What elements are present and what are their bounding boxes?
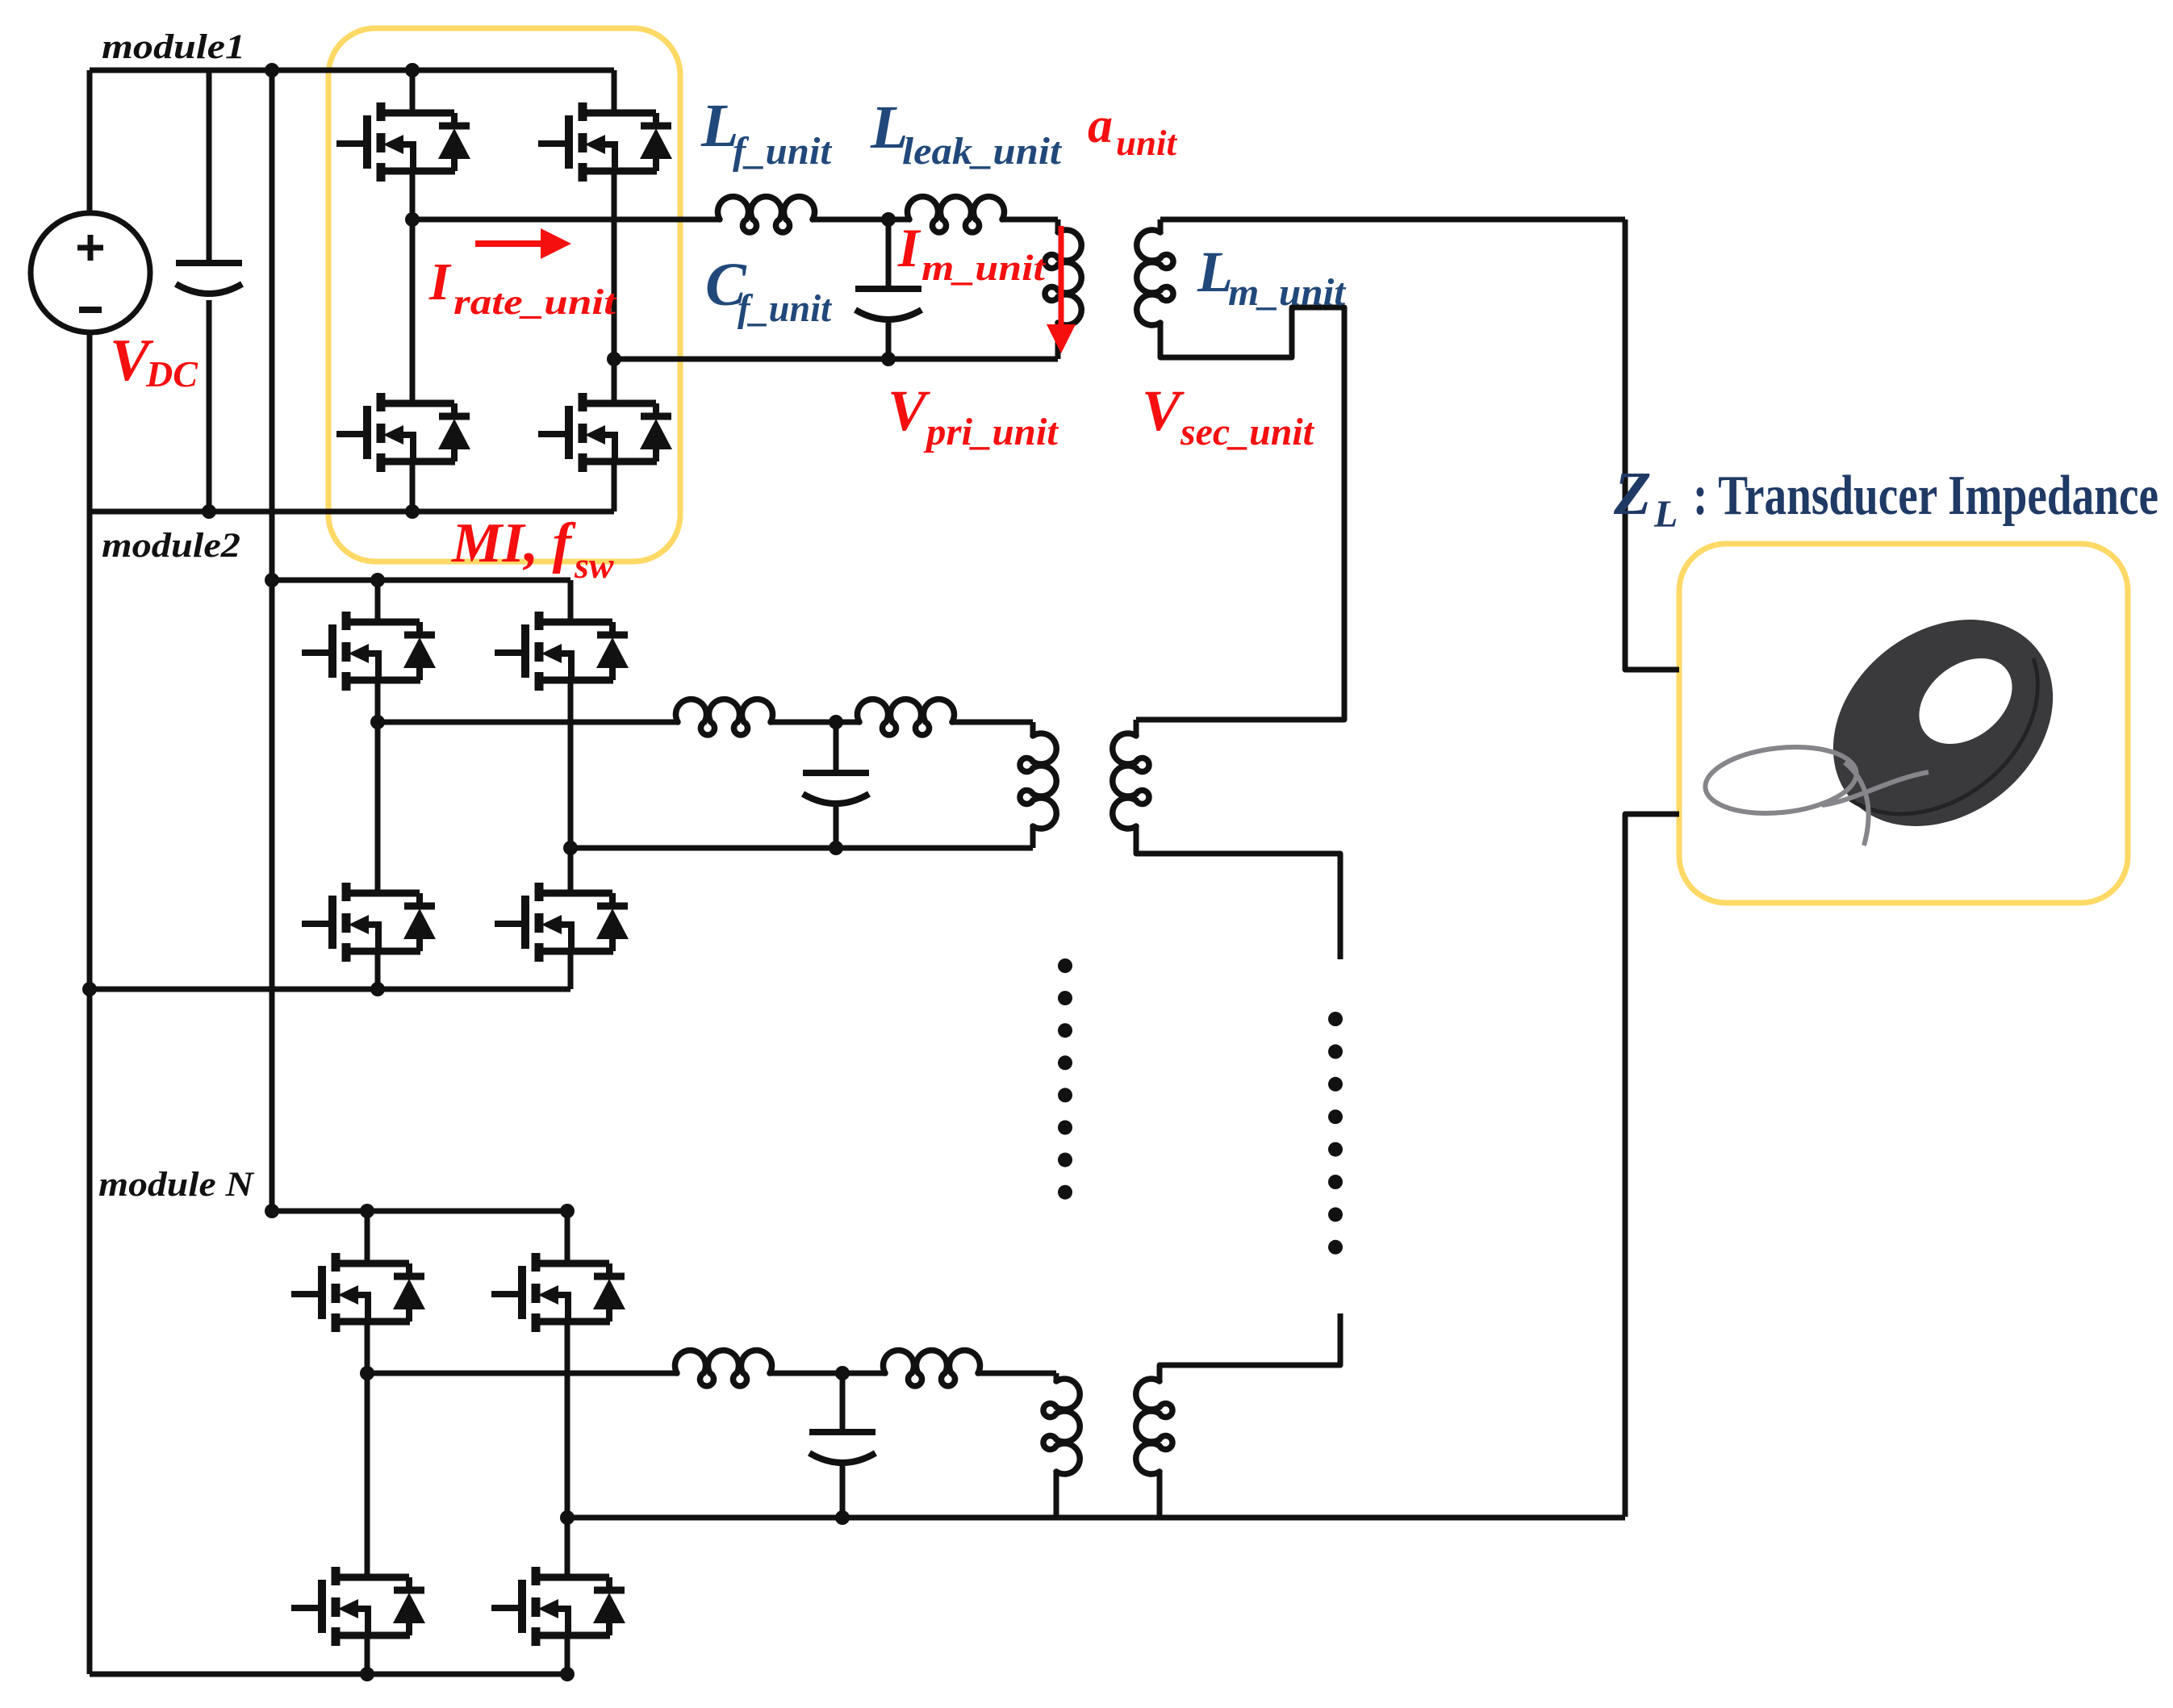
wire transformer1 primary top [1055,219,1061,232]
wire transformer2 secondary top [1134,720,1139,736]
svg-text:module1: module1 [102,28,245,66]
node module N left leg bottom [360,1667,374,1681]
transistor Q12 (module N lower-right MOSFET) [491,1567,625,1646]
transistor Q2 (module1 upper-right MOSFET) [538,102,672,182]
capacitor input C leads [207,70,212,263]
svg-text:I: I [428,253,452,311]
transistor Q4 (module1 lower-right MOSFET) [538,393,672,472]
capacitor C_f module2 [803,773,869,804]
wire module N top rail [272,1209,567,1214]
wire transformer N primary bottom [1054,1472,1059,1518]
transistor Q11 (module N lower-left MOSFET) [291,1567,425,1646]
transformer T2 primary winding [1020,733,1056,829]
wire module N right leg lower [565,1635,570,1674]
ellipsis dots secondary chain [1328,1012,1343,1026]
wire module N bottom rail [90,1672,567,1677]
wire module2 right leg upper [568,580,574,622]
transformer TN primary winding [1043,1379,1080,1474]
wire secondary bus bottom [1625,814,1679,1517]
wire module2 left leg lower [375,951,381,989]
node C_f module2 top [829,715,843,729]
transistor Q7 (module2 lower-left MOSFET) [302,883,436,962]
node module N right-leg output [560,1510,575,1525]
ellipsis dots primary chain [1058,958,1072,973]
transistor Q5 (module2 upper-left MOSFET) [302,612,436,691]
highlight box around module1 H-bridge (MI, f_sw) [328,28,680,562]
capacitor C_f module N leads [840,1373,846,1432]
wire module N filter mid [770,1371,885,1376]
label I_m_unit arrow [1047,226,1076,353]
node module N left-leg output [360,1366,374,1380]
wire module1 left leg upper [410,70,416,113]
wire transformer2 secondary bottom [1136,826,1340,959]
transducer wire loop [1702,740,1929,846]
wire module N L_leak to transformer [978,1371,1056,1376]
wire positive bus [270,70,275,1211]
inductor L_leak module N [884,1351,980,1386]
inductor L_f module N [675,1351,772,1386]
wire transformer N secondary top link [1160,1313,1340,1381]
svg-text:a: a [1088,98,1113,153]
node module N right leg top [560,1204,575,1218]
inductor L_f module2 [676,699,773,735]
wire module N output A [367,1371,677,1376]
wire transformer1 secondary top [1158,219,1164,232]
wire module2 right leg lower [568,951,574,989]
wire module1 right leg lower [612,461,617,512]
svg-text:m_unit: m_unit [921,247,1046,288]
node module2 left leg bottom [370,982,385,996]
svg-text:f_unit: f_unit [733,130,833,173]
svg-text:V: V [888,378,930,443]
node module2 bottom rail to bus [82,982,97,996]
wire module1 output B [614,357,1058,362]
svg-text:f_unit: f_unit [738,287,833,330]
wire module2 output A [378,720,678,725]
svg-text:V: V [1142,378,1185,443]
svg-text:DC: DC [145,353,198,395]
node module N left leg top [360,1204,374,1218]
label V_sec_unit [1142,378,1315,453]
wire module2 output B [570,846,1033,851]
svg-text:module2: module2 [102,527,240,565]
wire transformer2 primary top [1030,722,1036,736]
label I_m_unit [897,217,1046,288]
node input cap bottom [202,504,216,519]
svg-text:pri_unit: pri_unit [923,411,1059,453]
wire module N right leg upper [565,1211,570,1263]
wire L_leak to transformer [1002,217,1058,223]
node C_f module N top [835,1366,850,1380]
capacitor C_f module2 leads [834,722,839,773]
transistor Q6 (module2 upper-right MOSFET) [495,612,629,691]
transformer T2 secondary winding [1113,733,1149,829]
wire source top lead [87,70,93,215]
wire module1 top rail [90,68,614,73]
label I_rate_unit arrow [475,228,571,259]
capacitor C_f_unit [855,289,921,319]
node module1 left-leg output [405,212,420,227]
transducer toroid picture [1792,577,2094,869]
voltage source V_DC [31,213,150,332]
transistor Q10 (module N upper-right MOSFET) [491,1253,625,1332]
wire negative bus left [87,331,93,1674]
wire module1 right leg upper [612,70,617,113]
inductor L_f_unit [718,197,815,232]
wire L_f to C_f node [813,217,909,223]
transistor Q8 (module2 lower-right MOSFET) [495,883,629,962]
svg-text:I: I [897,217,921,278]
svg-text:sw: sw [574,545,614,586]
transistor Q1 (module1 upper-left MOSFET) [336,102,470,182]
label L_f_unit [700,92,833,173]
wire module2 L_leak to transformer [952,720,1033,725]
capacitor C_f module N [809,1432,875,1463]
svg-text:L: L [1653,493,1678,536]
wire module2 filter mid [771,720,859,725]
node module2 right-leg output [563,841,578,855]
wire module N left leg lower [365,1635,370,1674]
svg-text:leak_unit: leak_unit [902,130,1063,173]
wire module N output B [567,1515,1160,1521]
capacitor C_f_unit leads [886,219,892,289]
label a_unit [1088,98,1178,163]
transformer T1 secondary winding [1137,230,1173,325]
wire transformer N secondary bottom [1157,1472,1163,1518]
node module1 left leg top [405,63,420,77]
node module1 right-leg output [607,352,621,366]
wire module2 left leg mid [375,680,381,893]
transformer T1 primary winding [1045,230,1081,325]
wire module1 bottom rail [90,509,614,515]
wire module2 top rail [272,578,570,583]
transistor Q3 (module1 lower-left MOSFET) [336,393,470,472]
svg-text:m_unit: m_unit [1228,271,1347,314]
wire module2 left leg upper [375,580,381,622]
svg-text:Z: Z [1613,460,1651,528]
node C_f module2 bottom [829,841,843,855]
transformer TN secondary winding [1136,1379,1172,1474]
svg-text:module N: module N [98,1166,255,1204]
node C_f_unit top [881,212,896,227]
wire transformer1 secondary bottom jog [1136,307,1344,720]
label L_leak_unit [870,94,1063,173]
label I_rate_unit [428,253,617,322]
node module2 left-leg output [370,715,385,729]
node module2 positive tap [265,573,279,587]
highlight box around transducer load Z_L [1679,544,2128,903]
inductor L_leak module2 [858,699,955,735]
node module2 left leg top [370,573,385,587]
label C_f_unit [705,251,833,330]
wire module N left leg mid [365,1322,370,1577]
label MI, f_sw [451,512,614,586]
node C_f module N bottom [835,1510,850,1525]
node module1 left leg bottom [405,504,420,519]
node positive bus top [265,63,279,77]
wire module2 bottom rail [90,987,570,992]
label L_m_unit [1197,240,1347,314]
wire module1 right leg mid [612,171,617,403]
wire transformer1 primary bottom [1055,323,1061,359]
inductor L_leak_unit [908,197,1005,232]
svg-text:sec_unit: sec_unit [1180,411,1315,453]
svg-text:rate_unit: rate_unit [453,282,617,322]
label Z_L : Transducer Impedance [1613,460,2158,536]
node module N positive tap [265,1204,279,1218]
wire module1 output A [412,217,720,223]
wire secondary bus top [1625,219,1679,670]
wire module1 left leg lower [410,461,416,512]
wire module1 left leg mid [410,171,416,403]
node module N right leg bottom [560,1667,575,1681]
wire transformer N primary top [1054,1373,1059,1381]
wire module N right leg mid [565,1322,570,1577]
svg-text:: Transducer Impedance: : Transducer Impedance [1693,465,2158,527]
label V_pri_unit [888,378,1059,453]
wire module N left leg upper [365,1211,370,1263]
svg-text:MI, f: MI, f [451,512,577,574]
wire module2 right leg mid [568,680,574,893]
capacitor input C [176,263,242,294]
transistor Q9 (module N upper-left MOSFET) [291,1253,425,1332]
label V_DC [110,328,198,395]
wire transformer2 primary bottom [1030,826,1036,848]
node C_f_unit bottom [881,352,896,366]
svg-text:unit: unit [1116,123,1178,163]
